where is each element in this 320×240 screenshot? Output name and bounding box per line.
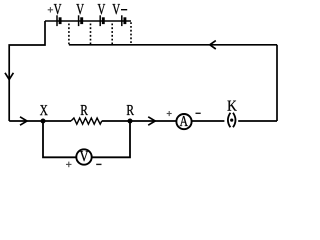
label V over cell B4 [112,4,120,14]
arrow: current direction (leftwards) on bus [210,41,216,49]
battery cell B3 (short thick plate) [102,17,105,24]
battery cell B4 (long plate) [121,15,123,26]
key K plug dot [230,119,233,122]
battery cell B1 (long plate) [56,15,58,26]
arrow: current direction (rightwards) near bottom-left corner [20,117,27,125]
label - of V- over cell B4 [121,9,127,11]
dashed tap wire 1 from battery junction to bus [68,24,70,46]
wire: horizontal bus from taps to right corner [69,44,277,46]
battery cell B1 (short thick plate) [59,17,62,24]
wire: right vertical conductor [276,45,278,121]
label R over resistor [81,105,88,115]
label - at ammeter right terminal [196,112,201,114]
label - at voltmeter right terminal [96,163,101,165]
battery cell B4 (short thick plate) [123,17,126,24]
label V over cell B1 [54,4,62,14]
label + of +V over cell B1 [48,9,53,11]
wire: top battery row conductor [45,20,131,22]
arrow: current direction (rightwards) before ammeter [148,117,155,125]
label V inside voltmeter [80,151,89,161]
wire: bottom main conductor right of key [238,120,277,122]
voltmeter U2 (circle) [76,149,91,164]
label A inside ammeter [180,116,188,126]
wire: bottom main conductor from left corner to resistor [9,120,71,122]
node X (junction dot) [41,119,46,124]
label K over key [227,101,236,111]
arrow: current direction (downwards) on left wire [5,73,13,80]
label V over cell B3 [98,4,106,14]
wire: voltmeter branch (down from X, across, up to R) [43,121,130,157]
key K right contact (parenthesis) [233,113,236,128]
dashed tap wire 2 from battery junction to bus [90,24,92,46]
wire: from battery positive terminal down, left, and down the left edge [9,21,45,121]
resistor R (zigzag) [71,118,102,124]
dashed tap wire 4 from battery end to bus [130,22,132,45]
label + at voltmeter left terminal [66,163,72,165]
label X over node [40,105,48,115]
battery cell B2 (short thick plate) [80,17,83,24]
label + at ammeter left terminal [167,113,172,115]
battery cell B2 (long plate) [78,15,80,26]
label V over cell B2 [76,4,84,14]
key K left contact (parenthesis) [228,113,231,128]
ammeter U1 (circle) [176,114,191,129]
dashed tap wire 3 from battery junction to bus [111,24,113,46]
node R (junction dot) [128,119,133,124]
label R over node [127,105,134,115]
battery cell B3 (long plate) [99,15,101,26]
wire: bottom main conductor from resistor to key [102,120,225,122]
